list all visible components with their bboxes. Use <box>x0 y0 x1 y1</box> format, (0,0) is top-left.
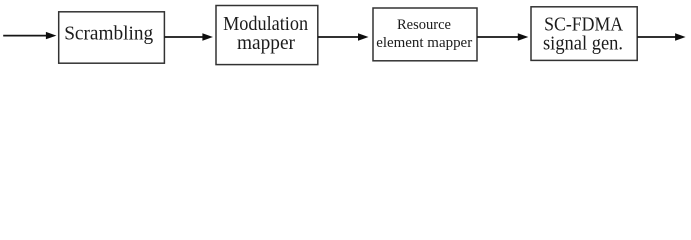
box Modulation mapper <box>216 6 318 65</box>
wire arrow 3 <box>318 33 369 40</box>
arrow input <box>3 32 56 39</box>
arrow output <box>637 33 685 40</box>
wire arrow 4 <box>477 33 528 40</box>
box Scrambling <box>59 12 165 63</box>
svg-text:signal gen.: signal gen. <box>543 32 623 54</box>
wire arrow 2 <box>164 33 213 40</box>
svg-text:mapper: mapper <box>237 32 295 54</box>
svg-text:element mapper: element mapper <box>376 35 472 51</box>
box Resource element mapper <box>373 8 477 61</box>
svg-text:Scrambling: Scrambling <box>64 23 153 45</box>
svg-text:Resource: Resource <box>397 17 451 33</box>
box SC-FDMA signal gen. <box>531 7 637 61</box>
